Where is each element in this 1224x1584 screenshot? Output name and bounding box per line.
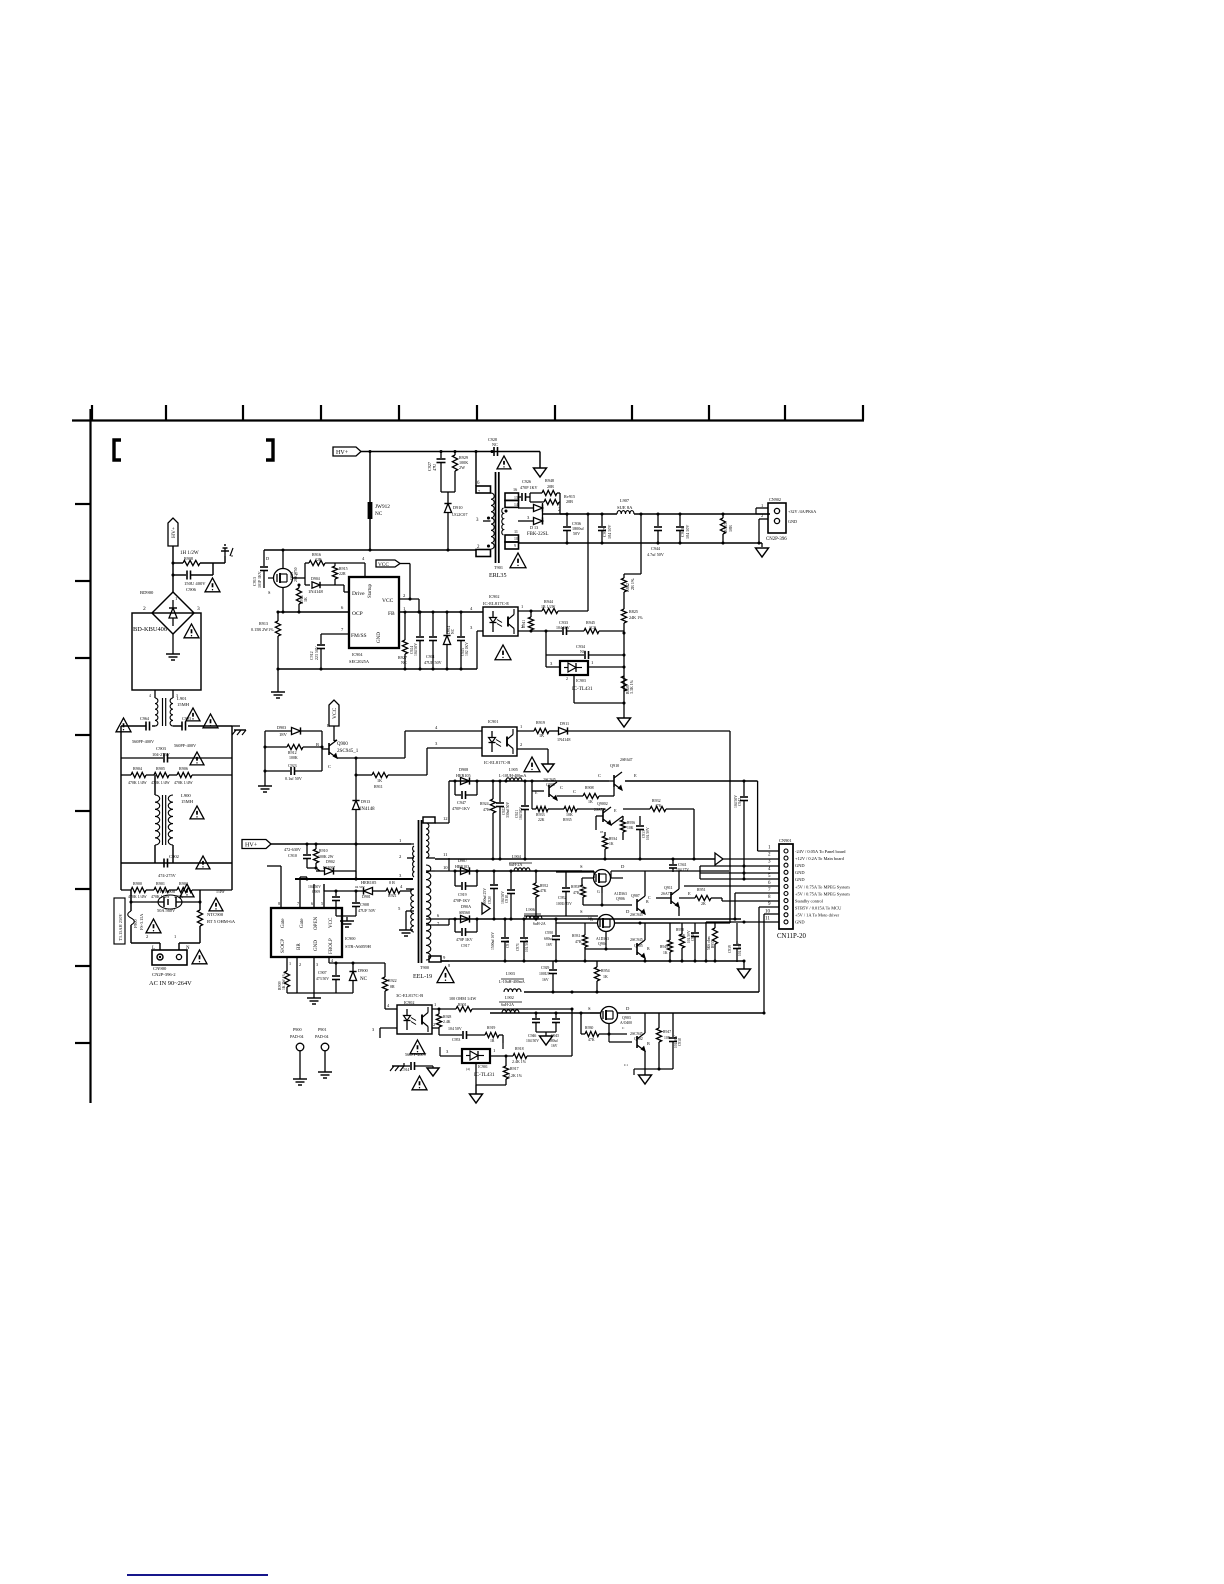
warning triangle below C914 bbox=[412, 1076, 427, 1090]
svg-text:C916: C916 bbox=[506, 940, 510, 948]
svg-text:3: 3 bbox=[476, 518, 479, 523]
svg-text:R934: R934 bbox=[609, 837, 617, 841]
svg-text:15MH: 15MH bbox=[177, 702, 190, 707]
svg-text:IC902: IC902 bbox=[489, 594, 499, 599]
svg-text:104 50V: 104 50V bbox=[556, 625, 570, 630]
svg-text:C953: C953 bbox=[452, 1038, 460, 1042]
resistor R914 bbox=[296, 583, 308, 612]
svg-text:1: 1 bbox=[399, 838, 402, 843]
svg-text:C: C bbox=[598, 773, 601, 778]
svg-text:FS-3.15A: FS-3.15A bbox=[139, 914, 144, 930]
capacitor C926 bbox=[518, 479, 538, 501]
chassis ground under P900 bbox=[299, 1075, 301, 1079]
svg-text:3: 3 bbox=[435, 741, 438, 746]
thermistor NTC900 bbox=[197, 910, 235, 926]
svg-text:C917: C917 bbox=[461, 943, 470, 948]
svg-text:IC900: IC900 bbox=[345, 936, 355, 941]
buffer arrow mid bbox=[482, 903, 490, 914]
resistor R931 bbox=[572, 923, 588, 962]
svg-text:E: E bbox=[327, 723, 330, 728]
svg-text:R911: R911 bbox=[374, 784, 383, 789]
svg-text:1K: 1K bbox=[303, 597, 308, 602]
svg-text:HV+: HV+ bbox=[171, 527, 177, 538]
svg-text:22R: 22R bbox=[315, 557, 322, 562]
svg-text:1N4148: 1N4148 bbox=[359, 807, 375, 812]
top ruler tick marks bbox=[92, 405, 863, 420]
pad P900 bbox=[290, 1027, 304, 1075]
svg-text:1K: 1K bbox=[663, 951, 668, 955]
svg-text:7: 7 bbox=[341, 627, 344, 632]
chassis ground right of cap rail bbox=[232, 725, 240, 727]
resistor R956 bbox=[611, 816, 635, 840]
svg-text:330uf 50V: 330uf 50V bbox=[506, 802, 510, 818]
svg-text:47UF 50V: 47UF 50V bbox=[358, 908, 376, 913]
wire IC900 pin4 FBOLP bbox=[328, 957, 330, 963]
wire pin2 +12V bbox=[723, 858, 779, 860]
ground arrow right of C914 bbox=[432, 1066, 434, 1068]
svg-text:(4): (4) bbox=[466, 1067, 470, 1071]
svg-text:L902: L902 bbox=[505, 995, 514, 1000]
svg-text:2SC945: 2SC945 bbox=[630, 937, 643, 942]
resistor R912 bbox=[265, 744, 322, 760]
svg-text:1R 1/2W: 1R 1/2W bbox=[541, 604, 556, 609]
svg-text:R908: R908 bbox=[585, 785, 594, 790]
svg-text:2: 2 bbox=[433, 1022, 435, 1027]
capacitor C945 bbox=[536, 1013, 560, 1048]
svg-text:9: 9 bbox=[443, 955, 446, 960]
svg-text:Q906: Q906 bbox=[616, 896, 625, 901]
wire primary gnd rail bbox=[278, 668, 477, 670]
svg-text:20B: 20B bbox=[566, 499, 573, 504]
resistor R929 bbox=[452, 452, 468, 493]
svg-text:6: 6 bbox=[768, 880, 771, 886]
svg-text:Q911: Q911 bbox=[664, 885, 673, 890]
resistor R954 bbox=[594, 961, 609, 992]
svg-text:4: 4 bbox=[331, 958, 334, 963]
wire IC901 pin2 to ground bbox=[517, 748, 548, 750]
resistor RV915 bbox=[530, 493, 575, 505]
svg-text:2SA773: 2SA773 bbox=[661, 892, 673, 896]
svg-text:CN901: CN901 bbox=[779, 838, 792, 843]
svg-text:G: G bbox=[597, 890, 600, 894]
diode D900 bbox=[336, 963, 369, 993]
varistor TVR900 bbox=[131, 889, 189, 913]
svg-text:EEL-19: EEL-19 bbox=[413, 974, 432, 980]
svg-text:8: 8 bbox=[448, 963, 451, 968]
svg-text:GND: GND bbox=[795, 877, 805, 882]
svg-text:472-630V: 472-630V bbox=[284, 847, 301, 852]
transistor Q903 bbox=[588, 1006, 765, 1034]
wire +32V output rail bbox=[560, 513, 617, 515]
svg-text:560PF-400V: 560PF-400V bbox=[132, 739, 155, 744]
svg-text:IC901: IC901 bbox=[488, 719, 498, 724]
left ruler line bbox=[89, 409, 91, 1103]
svg-text:L907: L907 bbox=[620, 498, 630, 503]
optocoupler IC902b bbox=[396, 993, 432, 1034]
resistor R928 bbox=[436, 1009, 451, 1028]
svg-text:102 1KV: 102 1KV bbox=[465, 642, 469, 656]
diode D903 bbox=[265, 725, 322, 737]
capacitor C938 bbox=[669, 1013, 682, 1069]
svg-text:104 50V: 104 50V bbox=[646, 827, 650, 840]
svg-text:104 50V: 104 50V bbox=[526, 1039, 539, 1043]
svg-text:F900: F900 bbox=[133, 919, 138, 928]
chassis ground at R908 bbox=[224, 548, 226, 556]
svg-text:470K 1/4W: 470K 1/4W bbox=[174, 780, 193, 785]
svg-text:2.4K: 2.4K bbox=[443, 1020, 451, 1024]
svg-text:9: 9 bbox=[514, 544, 516, 548]
ground arrow below C945 bbox=[545, 1032, 547, 1036]
svg-text:470K 1/4W: 470K 1/4W bbox=[151, 780, 170, 785]
svg-text:NC: NC bbox=[580, 649, 586, 654]
wire Q902 emitter ground bbox=[645, 1068, 673, 1070]
svg-text:Standby control: Standby control bbox=[795, 898, 824, 903]
svg-text:C944: C944 bbox=[651, 546, 661, 551]
wire IC902 pin3 bbox=[477, 630, 483, 632]
svg-text:R919: R919 bbox=[487, 1026, 495, 1030]
wire HV+ top rail bbox=[361, 451, 540, 453]
ground at T900 pin5 bbox=[405, 926, 407, 930]
wire gate net to IC bbox=[343, 585, 345, 592]
svg-text:NC: NC bbox=[401, 660, 407, 665]
svg-text:(4): (4) bbox=[588, 916, 592, 920]
svg-text:9: 9 bbox=[768, 901, 771, 907]
svg-text:R956: R956 bbox=[627, 821, 635, 825]
wire choke L900 to lower rail bbox=[121, 862, 232, 864]
svg-text:C993: C993 bbox=[182, 716, 191, 721]
svg-text:8: 8 bbox=[278, 901, 280, 906]
resistor R917 bbox=[476, 1054, 523, 1085]
svg-text:+5V / 0.75A To MPEG System: +5V / 0.75A To MPEG System bbox=[795, 891, 850, 896]
svg-text:VCC: VCC bbox=[378, 562, 389, 568]
svg-text:474-275V: 474-275V bbox=[158, 873, 177, 878]
svg-text:CN11P-20: CN11P-20 bbox=[777, 933, 806, 940]
svg-text:2SA713: 2SA713 bbox=[594, 808, 606, 812]
diode D910 bbox=[444, 504, 468, 550]
svg-text:104 50V: 104 50V bbox=[448, 1026, 462, 1031]
wire +12V rail pin10 bbox=[435, 870, 455, 872]
wire HV+ to T900 pin1 bbox=[271, 843, 411, 845]
svg-text:HV+: HV+ bbox=[245, 843, 258, 849]
svg-text:HV+: HV+ bbox=[336, 450, 349, 456]
svg-text:14: 14 bbox=[514, 503, 518, 507]
svg-text:2SC945: 2SC945 bbox=[630, 912, 643, 917]
svg-text:+32V /4A/PK6A: +32V /4A/PK6A bbox=[788, 509, 816, 514]
IC901b TL431 bbox=[440, 1043, 513, 1094]
svg-text:+12V / 0.2A To Main board: +12V / 0.2A To Main board bbox=[795, 856, 845, 861]
buffer arrow on rail 11 bbox=[715, 853, 723, 865]
svg-text:STB5V / 0.015A To MCU: STB5V / 0.015A To MCU bbox=[795, 906, 842, 911]
svg-text:D904: D904 bbox=[311, 576, 320, 581]
ground arrow below Q902 bbox=[639, 1075, 652, 1084]
transistor Q905 bbox=[585, 923, 650, 962]
svg-text:D: D bbox=[621, 864, 625, 869]
svg-text:L904: L904 bbox=[512, 854, 522, 859]
svg-text:C950: C950 bbox=[545, 931, 553, 935]
svg-text:Q900: Q900 bbox=[337, 742, 348, 747]
svg-text:IC-TL431: IC-TL431 bbox=[572, 686, 593, 692]
ground arrow at IC901 bbox=[542, 764, 554, 772]
svg-text:3: 3 bbox=[372, 1027, 375, 1032]
svg-text:104 50V: 104 50V bbox=[525, 939, 529, 952]
svg-text:GND: GND bbox=[795, 920, 805, 925]
svg-text:16V: 16V bbox=[551, 1044, 558, 1048]
svg-text:1K: 1K bbox=[539, 733, 544, 738]
resistor R949 bbox=[660, 923, 673, 962]
svg-text:P900: P900 bbox=[293, 1027, 302, 1032]
svg-text:16V: 16V bbox=[546, 943, 553, 947]
svg-text:6: 6 bbox=[437, 913, 440, 918]
wire pin 11 GND bbox=[706, 921, 779, 923]
diode D912 bbox=[518, 503, 568, 537]
wire IC904 FB pin 1 rail bbox=[399, 611, 483, 613]
capacitor C936 bbox=[563, 514, 584, 543]
resistor R952 bbox=[533, 871, 548, 919]
svg-text:470P 1KV: 470P 1KV bbox=[520, 485, 538, 490]
svg-text:IC903: IC903 bbox=[576, 678, 586, 683]
capacitor C940 bbox=[687, 923, 699, 962]
transistor Q902 bbox=[609, 1013, 650, 1069]
svg-text:UG2C07: UG2C07 bbox=[452, 512, 468, 517]
svg-text:NC: NC bbox=[375, 511, 383, 517]
svg-text:C926: C926 bbox=[522, 479, 531, 484]
svg-text:R948: R948 bbox=[545, 478, 554, 483]
svg-text:BD900: BD900 bbox=[140, 590, 154, 595]
svg-text:04 50V: 04 50V bbox=[355, 885, 365, 889]
svg-text:50A 560V: 50A 560V bbox=[157, 908, 176, 913]
resistor R919 bbox=[534, 720, 558, 738]
svg-text:150U 400V: 150U 400V bbox=[184, 581, 206, 586]
resistor R951 bbox=[679, 887, 722, 906]
svg-text:18V: 18V bbox=[279, 732, 288, 737]
transformer T901 primary bbox=[476, 452, 494, 557]
svg-text:47K: 47K bbox=[573, 891, 580, 895]
capacitor C909 bbox=[308, 885, 340, 916]
resistor R945 bbox=[584, 620, 624, 634]
resistor R901 bbox=[146, 881, 170, 899]
optocoupler IC901 bbox=[482, 719, 517, 765]
svg-text:T3.15AH 250V: T3.15AH 250V bbox=[118, 913, 123, 941]
svg-text:BR: BR bbox=[296, 943, 302, 950]
net label HV+ lower bbox=[242, 840, 271, 849]
ground arrow top right bbox=[534, 468, 547, 477]
resistor R933 bbox=[532, 791, 556, 822]
svg-text:OCP: OCP bbox=[352, 611, 363, 617]
svg-text:C906: C906 bbox=[186, 587, 197, 592]
connector CN901 bbox=[765, 838, 850, 940]
wire CN902 pins bbox=[756, 513, 770, 515]
capacitor C912 bbox=[309, 645, 325, 669]
svg-text:PAD-04: PAD-04 bbox=[290, 1034, 304, 1039]
diode D914 bbox=[443, 612, 455, 669]
svg-text:AC IN 90~264V: AC IN 90~264V bbox=[149, 980, 192, 987]
wire IC900 pin1 R909 bbox=[286, 957, 288, 971]
net label HV+ top bbox=[333, 447, 361, 456]
svg-text:R922: R922 bbox=[388, 978, 397, 983]
diode D907 bbox=[455, 858, 470, 875]
svg-text:104-275V: 104-275V bbox=[152, 752, 171, 757]
svg-text:101P 1KV: 101P 1KV bbox=[257, 571, 262, 588]
svg-text:C909: C909 bbox=[312, 890, 320, 894]
svg-text:12: 12 bbox=[443, 816, 448, 821]
svg-text:6: 6 bbox=[311, 901, 313, 906]
wire rail Q904 S-D bbox=[524, 915, 598, 917]
svg-text:C942: C942 bbox=[738, 798, 742, 806]
svg-text:2: 2 bbox=[761, 513, 763, 518]
wire OCP rail bbox=[278, 611, 349, 613]
svg-text:100 OHM 1/4W: 100 OHM 1/4W bbox=[449, 996, 476, 1001]
chassis ground under P901 bbox=[324, 1068, 326, 1072]
warning triangle below T900 bbox=[437, 967, 454, 983]
svg-text:L905: L905 bbox=[509, 767, 518, 772]
svg-text:Q909: Q909 bbox=[546, 782, 555, 787]
svg-text:SB560: SB560 bbox=[459, 910, 470, 915]
svg-text:HER103: HER103 bbox=[455, 864, 469, 869]
svg-text:11: 11 bbox=[443, 852, 448, 857]
svg-text:15MH: 15MH bbox=[181, 799, 194, 804]
svg-text:E: E bbox=[614, 808, 617, 813]
resistor R947 bbox=[656, 1013, 671, 1069]
svg-text:IC904: IC904 bbox=[352, 652, 363, 657]
IC903 TL431 bbox=[546, 655, 624, 703]
svg-text:C964: C964 bbox=[140, 716, 150, 721]
svg-text:Q902: Q902 bbox=[634, 1036, 643, 1041]
svg-text:VCC: VCC bbox=[332, 707, 338, 719]
svg-text:R953: R953 bbox=[571, 885, 579, 889]
wire pin 9 STB5V bbox=[759, 906, 779, 908]
svg-text:C952: C952 bbox=[558, 896, 566, 900]
svg-text:2: 2 bbox=[566, 677, 568, 681]
svg-text:D900: D900 bbox=[358, 968, 369, 973]
svg-text:S: S bbox=[580, 909, 583, 914]
svg-text:L901: L901 bbox=[177, 696, 187, 701]
wire IC901 pin1 bbox=[517, 730, 534, 732]
svg-text:NTC900: NTC900 bbox=[207, 912, 224, 917]
svg-text:CN902: CN902 bbox=[769, 497, 781, 502]
capacitor C908 bbox=[336, 889, 376, 927]
svg-text:CN900: CN900 bbox=[153, 966, 167, 971]
svg-text:D910: D910 bbox=[453, 505, 463, 510]
svg-text:E: E bbox=[688, 891, 691, 896]
capacitor C906 bbox=[173, 563, 213, 592]
svg-text:2: 2 bbox=[520, 742, 522, 747]
capacitor C910 bbox=[284, 844, 311, 868]
resistor R918 bbox=[512, 1009, 572, 1064]
wire output ground rail bbox=[518, 542, 762, 544]
svg-text:1C8: 1C8 bbox=[589, 625, 596, 630]
svg-text:0 R: 0 R bbox=[389, 880, 395, 885]
resistor R904 bbox=[121, 766, 147, 785]
svg-text:R954: R954 bbox=[601, 968, 610, 973]
resistor R902 bbox=[169, 881, 232, 899]
svg-text:20R: 20R bbox=[547, 484, 554, 489]
resistor R911 bbox=[372, 725, 482, 789]
svg-text:OPEN: OPEN bbox=[313, 916, 319, 930]
svg-text:D: D bbox=[626, 1006, 630, 1011]
svg-text:D913: D913 bbox=[361, 799, 370, 804]
svg-text:IC-EL817C-E: IC-EL817C-E bbox=[483, 601, 509, 606]
svg-text:C971: C971 bbox=[516, 943, 520, 951]
svg-text:R941: R941 bbox=[522, 620, 526, 628]
transistor Q900 bbox=[316, 731, 359, 771]
capacitor C933 bbox=[556, 620, 584, 635]
svg-text:2: 2 bbox=[399, 854, 402, 859]
svg-text:4: 4 bbox=[149, 694, 151, 698]
svg-text:+5V / 0.75A To MPEG System: +5V / 0.75A To MPEG System bbox=[795, 884, 850, 889]
capacitor C993 bbox=[174, 716, 197, 748]
wire pins 6 7 +5V bbox=[684, 885, 779, 887]
resistor R919b bbox=[485, 1026, 503, 1043]
capacitor C914 bbox=[401, 1052, 433, 1072]
svg-text:2: 2 bbox=[299, 962, 301, 967]
svg-text:R825: R825 bbox=[629, 609, 638, 614]
svg-text:6: 6 bbox=[341, 605, 344, 610]
ground arrow below IC901b bbox=[475, 1085, 477, 1094]
optocoupler IC902 bbox=[483, 594, 518, 636]
resistor R910 bbox=[307, 844, 334, 870]
T900 primary lower bbox=[398, 884, 414, 932]
svg-text:1: 1 bbox=[403, 606, 406, 611]
warning triangle in bridge box bbox=[184, 624, 199, 638]
svg-text:S: S bbox=[580, 864, 583, 869]
capacitor C924 bbox=[410, 612, 424, 669]
wire IC900 pin2 bbox=[296, 957, 298, 993]
wire IC904 VCC pin 2 bbox=[399, 598, 419, 600]
svg-text:R932: R932 bbox=[652, 798, 661, 803]
svg-text:2SE647: 2SE647 bbox=[620, 757, 633, 762]
svg-text:D908: D908 bbox=[459, 767, 468, 772]
svg-text:4: 4 bbox=[387, 1003, 390, 1008]
svg-text:223 50V: 223 50V bbox=[314, 646, 319, 660]
svg-text:0.15R 2W1%: 0.15R 2W1% bbox=[251, 627, 274, 632]
svg-text:47K: 47K bbox=[540, 889, 547, 893]
svg-text:D907: D907 bbox=[458, 858, 467, 863]
svg-text:R921: R921 bbox=[388, 893, 397, 898]
svg-text:Q905: Q905 bbox=[634, 943, 643, 948]
svg-text:Gate: Gate bbox=[299, 918, 305, 928]
svg-text:SUE 8A: SUE 8A bbox=[617, 505, 633, 510]
svg-text:100UF: 100UF bbox=[539, 972, 550, 976]
net label HV+ (rectifier output) bbox=[168, 518, 178, 546]
IC904 box bbox=[349, 577, 399, 664]
svg-text:C: C bbox=[622, 1026, 625, 1030]
wire Q901 gate bbox=[268, 577, 274, 579]
svg-text:LF4007: LF4007 bbox=[323, 866, 335, 870]
inductor L907 bbox=[617, 498, 634, 514]
svg-text:R908: R908 bbox=[184, 556, 193, 561]
capacitor C913 bbox=[252, 550, 268, 588]
svg-text:NC: NC bbox=[492, 442, 498, 447]
svg-text:C907: C907 bbox=[318, 970, 327, 975]
svg-text:R904: R904 bbox=[133, 766, 143, 771]
svg-text:D903: D903 bbox=[277, 725, 286, 730]
resistor R842 bbox=[621, 578, 635, 609]
svg-text:1: 1 bbox=[493, 1048, 496, 1053]
svg-text:FM/SS: FM/SS bbox=[351, 633, 367, 639]
resistor R906 bbox=[169, 766, 232, 785]
resistor R953 bbox=[720, 514, 733, 543]
transformer T901 secondary bbox=[502, 487, 519, 549]
capacitor C941 bbox=[669, 859, 689, 872]
warning triangle at TVR900 bbox=[180, 884, 194, 897]
wire to AC connector bbox=[130, 925, 132, 943]
svg-text:S/OCP: S/OCP bbox=[280, 939, 286, 953]
wire Q904 drain to right bbox=[615, 922, 680, 924]
ground below R913 bbox=[277, 669, 279, 688]
left ruler tick marks bbox=[75, 504, 90, 1043]
svg-text:C903: C903 bbox=[156, 746, 167, 751]
wire pin1 +24V bbox=[757, 781, 759, 851]
